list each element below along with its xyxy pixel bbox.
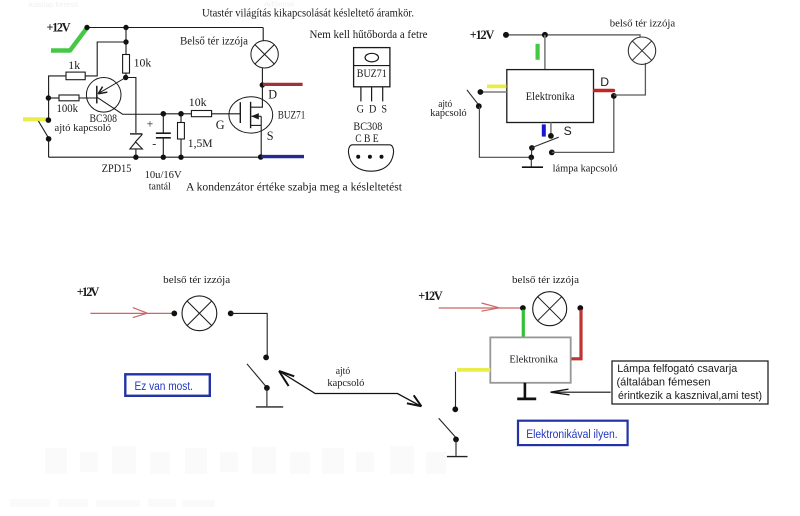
mosfet gate bar [239,102,241,123]
wire 10k to emitter node [125,73,127,77]
capacitor C1 tantal [162,114,164,133]
switch lámpa kapcsoló arm [532,137,559,147]
node base row left [46,95,51,100]
node rail branch [542,32,548,38]
package TO-220 mounting hole [365,53,378,62]
node drain [260,82,265,87]
wire switch to bottom rail [48,139,50,157]
wire bottom rail [49,156,261,158]
package TO-220 leg G [360,87,362,102]
svg-text:BUZ71: BUZ71 [357,68,387,80]
wire yellow door-switch feed [23,117,47,121]
wire lamp feed down [262,28,264,41]
node lamp junction [611,93,617,99]
zener D1 ZPD15 [130,133,142,135]
svg-text:Utastér világítás kikapcsolásá: Utastér világítás kikapcsolását késlelte… [202,7,414,20]
wire 10k column down [125,28,127,55]
svg-text:Belső tér izzója: Belső tér izzója [180,35,248,47]
svg-text:+12V: +12V [418,289,443,303]
wire lamp to drain node [261,68,263,85]
node 1.5M bottom [178,155,183,160]
wire post link [531,148,533,157]
svg-text:Elektronika: Elektronika [526,91,575,103]
wire top rail [87,27,263,29]
svg-text:A kondenzátor értéke szabja me: A kondenzátor értéke szabja meg a késlel… [186,182,403,194]
svg-text:ajtó kapcsoló: ajtó kapcsoló [55,123,112,134]
svg-text:1k: 1k [68,58,80,72]
svg-text:kapcsoló: kapcsoló [430,108,467,119]
wire emitter node to zener column [126,78,136,134]
wire blue S highlight [542,124,546,136]
svg-text:C B E: C B E [355,132,379,145]
svg-text:D: D [268,88,277,102]
package TO-92 pin dots [356,155,360,159]
mosfet body stub with arrow [252,115,262,117]
svg-text:AdSense: AdSense [264,0,294,9]
wire yellow into box [457,368,490,372]
transistor collector [98,98,164,115]
node lamp right (bottom right) [577,305,583,311]
package TO-220 BUZ71 outline [354,48,390,87]
node capacitor top [161,111,167,117]
node lamp right [228,311,234,317]
node top rail at 10k column [123,25,128,30]
switch arm (bottom right) [439,418,456,437]
mosfet U BUZ71 body [229,97,273,133]
faint watermark bottom [10,446,446,507]
switch arm (bottom left) [247,364,267,387]
svg-text:Nem kell hűtőborda a fetre: Nem kell hűtőborda a fetre [310,29,428,41]
resistor R 1,5M [180,114,182,123]
node +12V [503,32,509,38]
node switch top [46,117,52,123]
svg-text:10k: 10k [189,95,207,109]
resistor R 1k [66,72,85,80]
svg-text:Lámpa felfogató csavarja: Lámpa felfogató csavarja [617,363,738,375]
svg-text:1,5M: 1,5M [188,137,213,150]
node 1.5M top [178,111,184,117]
transistor Q1 BC308 circle [86,78,121,113]
node lamp return contact [549,150,555,156]
node S lead [548,133,554,139]
wire 1k to left rail [49,76,66,120]
package TO-220 tab divider [354,65,390,67]
node switch bottom (bottom right) [453,437,459,443]
lamp L3 [182,296,217,331]
wire +12V green feed [51,29,87,51]
node branch to 1k [123,39,128,44]
node lamp left [171,311,177,317]
svg-text:+12V: +12V [77,285,100,299]
switch ajtó kapcsoló arm [467,90,479,105]
lamp L2 [628,37,655,64]
node ground post lower [529,155,535,161]
svg-text:belső tér izzója: belső tér izzója [610,18,676,30]
svg-text:-: - [152,137,156,151]
svg-text:kapcsoló: kapcsoló [327,378,364,389]
ground chassis under box [524,383,527,398]
svg-text:lámpa kapcsoló: lámpa kapcsoló [553,162,618,174]
arrow on red feed (bottom right) [482,303,500,311]
ground (lámpa kapcsoló) [530,157,532,167]
wire blue S highlight [262,155,305,158]
resistor R 10k upper [123,55,130,74]
svg-text:ZPD15: ZPD15 [102,162,132,175]
svg-text:+12V: +12V [47,21,71,35]
svg-text:100k: 100k [57,101,79,115]
wire lamp to switch [231,313,268,356]
svg-text:D: D [600,75,609,89]
svg-text:BUZ71: BUZ71 [278,109,306,122]
transistor emitter with arrow [100,78,126,93]
wire +12V red feed (bottom right) [439,307,521,309]
wire to 100k [48,97,59,99]
note box Lámpa felfogató [612,361,768,404]
node switch bottom [46,136,52,142]
wire door lead [482,91,507,93]
wire red D highlight [263,83,303,86]
box U3 Elektronika [490,337,570,382]
package TO-220 leg S [382,87,384,102]
box U2 Elektronika [507,70,594,123]
svg-text:Elektronika: Elektronika [509,354,558,365]
wire switch to ground post [479,106,531,157]
wire green supply highlight [535,44,539,60]
mosfet source stub [251,124,261,126]
resistor R 10k gate [191,111,211,117]
transistor base bar [96,86,98,104]
wire gate lead [212,113,241,115]
node switch top (bottom left) [263,355,269,361]
wire +12V red feed [90,312,172,314]
lamp L4 [533,292,567,326]
wire supply into box [544,35,546,70]
node door lead [478,89,484,95]
wire S lead from box [550,123,552,136]
arrow on red feed [133,308,148,318]
svg-text:G: G [216,118,225,132]
svg-text:+: + [147,119,154,131]
node switch lower [476,103,482,109]
node emitter [123,75,128,80]
svg-text:tantál: tantál [149,180,171,192]
svg-text:S: S [267,129,274,143]
svg-text:ajtó: ajtó [336,366,351,377]
resistor R 100k [59,95,79,101]
node capacitor bottom [161,155,166,160]
mosfet body-source link [260,116,262,125]
wire +12V rail [506,35,640,37]
mosfet channel bar [250,102,252,128]
wire green into box [522,310,525,338]
node top rail left [84,25,89,30]
svg-text:G D S: G D S [357,103,388,116]
lamp L1 belső tér izzója [251,41,278,68]
svg-text:10k: 10k [134,56,152,70]
wire yellow lead down [455,372,457,409]
svg-text:Ez van most.: Ez van most. [135,379,194,393]
svg-text:10u/16V: 10u/16V [145,169,182,181]
switch arm [38,121,48,137]
svg-text:+12V: +12V [470,28,495,42]
callout box Ez van most [125,374,210,396]
node lamp left (bottom right) [520,305,526,311]
svg-text:(általában fémesen: (általában fémesen [617,376,711,388]
arrow double-headed ajtó kapcsoló [279,371,421,406]
arrow from note to ground [551,391,611,393]
svg-text:belső tér izzója: belső tér izzója [512,274,579,286]
wire red D highlight [595,89,614,93]
wire yellow door input highlight [487,85,507,89]
wire 100k to base [79,97,97,99]
mosfet drain stub [251,85,263,107]
svg-text:S: S [564,124,572,138]
package TO-220 leg D [371,87,373,102]
wire collector row to gate resistor [163,113,191,115]
node source at rail [258,154,264,160]
node switch bottom (bottom left) [264,385,270,391]
svg-text:Elektronikával ilyen.: Elektronikával ilyen. [526,427,618,441]
node zener at rail [133,155,138,160]
node switch top (bottom right) [452,406,458,412]
svg-text:belső tér izzója: belső tér izzója [163,274,230,286]
mosfet source lead [260,125,262,157]
wire branch to 1k resistor [85,42,126,76]
ground (bottom left) [256,406,283,408]
wire red lamp return into box [571,310,581,359]
wire to ground (bottom right) [455,439,457,456]
wire lamp return [552,96,614,152]
svg-text:érintkezik a kasznival,ami tes: érintkezik a kasznival,ami test) [618,390,762,402]
callout box Elektronikával ilyen [518,421,628,445]
node ground post upper [529,145,535,151]
wire to ground [266,388,268,406]
wire to lamp bottom [614,63,646,95]
svg-text:Adatlap kereső: Adatlap kereső [28,0,78,9]
ground (bottom right switch) [447,456,468,458]
package TO-92 bottom view [348,145,393,171]
